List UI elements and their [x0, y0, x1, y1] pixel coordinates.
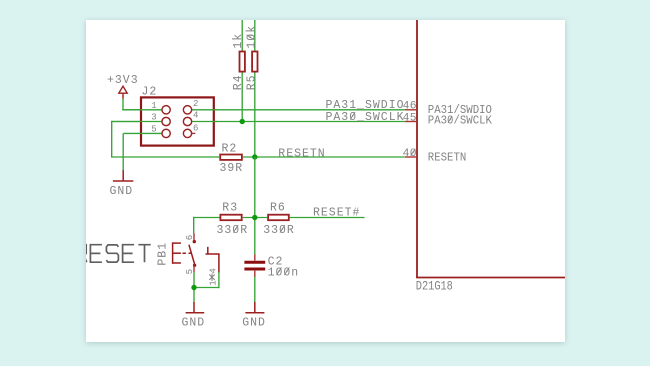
- svg-text:RESETN: RESETN: [278, 147, 325, 160]
- connector J2 body: [141, 97, 214, 145]
- wire PB1 to GND: [193, 272, 219, 303]
- wire pin5 to GND: [122, 133, 124, 170]
- svg-text:GND: GND: [110, 185, 134, 198]
- zero slash 10k (rotated): [247, 35, 254, 40]
- svg-text:D21G18: D21G18: [416, 278, 453, 294]
- sheet text RESET (big, vector strokes, R clipped at sheet edge): [74, 245, 150, 263]
- pin stub 46: [405, 109, 417, 111]
- wire PA31_SWDIO row: [122, 98, 405, 110]
- C2 pin stubs: [254, 254, 256, 277]
- pushbutton PB1 top pin stub: [193, 233, 195, 241]
- resistor R3 body: [220, 215, 241, 221]
- svg-text:GND: GND: [182, 316, 206, 329]
- wire RESETN row: [111, 121, 405, 157]
- svg-text:1: 1: [151, 101, 156, 111]
- PB1 bottom contact dot (pin 5): [193, 264, 196, 267]
- pin stub 45: [405, 121, 417, 123]
- PB1 contact label 1*4: [208, 268, 218, 286]
- zero slash 100n: [277, 268, 282, 275]
- ground GND under C2: [245, 302, 264, 313]
- svg-text:+3V3: +3V3: [107, 74, 139, 87]
- junction dot R4/SWCLK: [240, 119, 245, 124]
- capacitor C2 plates: [244, 262, 265, 269]
- slashed zeros overlay: [234, 35, 452, 275]
- svg-text:3: 3: [151, 113, 156, 123]
- pin stub 40: [405, 156, 417, 158]
- PB1 actuator E bracket: [172, 242, 192, 263]
- junction dot PB1/GND branch: [191, 285, 196, 290]
- resistor R6 body: [268, 215, 289, 221]
- zero slash 330R (R6): [280, 225, 285, 232]
- wire R5 pull-up vertical: [254, 20, 256, 157]
- wire RESET# row: [194, 157, 365, 255]
- svg-text:J2: J2: [142, 86, 158, 99]
- zero slash PA30/SWCLK (IC): [448, 116, 452, 122]
- svg-text:2: 2: [193, 99, 198, 109]
- svg-text:PA30_SWCLK: PA30_SWCLK: [326, 111, 405, 124]
- zero slash PA30_SWCLK: [350, 112, 355, 119]
- svg-text:PB1: PB1: [157, 242, 170, 266]
- J2 pin 3 circle: [162, 117, 170, 125]
- svg-text:R3: R3: [222, 202, 238, 215]
- junction dot R3/R6/C2: [252, 215, 257, 220]
- resistor R5 body: [252, 52, 257, 72]
- J2 pin 2 circle: [183, 106, 191, 114]
- wire PA30_SWCLK row: [112, 121, 405, 123]
- resistor R2 body: [220, 155, 242, 160]
- junction dot R5/RESETN: [252, 154, 257, 159]
- ground GND under PB1: [186, 302, 205, 313]
- svg-text:RESET#: RESET#: [313, 207, 360, 220]
- J2 pin 5 circle: [162, 129, 170, 137]
- svg-text:39R: 39R: [220, 162, 244, 175]
- zero slash pin 40: [411, 149, 415, 155]
- power +3V3 symbol: [119, 86, 127, 98]
- svg-text:R4: R4: [232, 74, 245, 90]
- wire C2 to GND: [254, 277, 256, 303]
- J2 wire stubs redraw over box: [112, 110, 217, 134]
- svg-text:1: 1: [208, 280, 218, 285]
- J2 pin 6 stub: [192, 132, 196, 134]
- svg-text:GND: GND: [242, 316, 266, 329]
- svg-text:46: 46: [403, 101, 417, 113]
- PB1 second contact (1*4) red part: [206, 247, 220, 272]
- PB1 bottom pin stub: [193, 265, 195, 272]
- svg-text:4: 4: [193, 111, 198, 121]
- J2 pin 4 circle: [183, 117, 191, 125]
- svg-text:5: 5: [151, 125, 156, 135]
- svg-text:45: 45: [403, 113, 417, 125]
- zero slash 330R (R3): [234, 225, 239, 232]
- svg-text:R5: R5: [245, 74, 258, 90]
- svg-text:100n: 100n: [268, 266, 300, 279]
- svg-text:6: 6: [193, 123, 198, 133]
- svg-text:1k: 1k: [232, 33, 245, 49]
- resistor R4 body: [240, 52, 245, 72]
- J2 pin 1 circle: [162, 106, 170, 114]
- IC U1 D21G18 body outline: [416, 20, 565, 278]
- svg-text:RESETN: RESETN: [428, 151, 467, 165]
- J2 pin 6 circle: [183, 129, 191, 137]
- ground GND under J2: [113, 170, 133, 181]
- svg-text:6: 6: [185, 235, 195, 240]
- PB1 lever: [189, 245, 195, 265]
- PB1 top contact dot (pin 6): [193, 240, 196, 243]
- svg-text:R2: R2: [222, 142, 238, 155]
- svg-text:4: 4: [208, 268, 218, 273]
- svg-text:R6: R6: [270, 202, 286, 215]
- wire R4 pull-up vertical: [241, 20, 243, 122]
- svg-text:10k: 10k: [245, 25, 258, 49]
- svg-text:PA30/SWCLK: PA30/SWCLK: [428, 114, 492, 128]
- svg-text:330R: 330R: [217, 224, 249, 237]
- svg-text:330R: 330R: [263, 224, 295, 237]
